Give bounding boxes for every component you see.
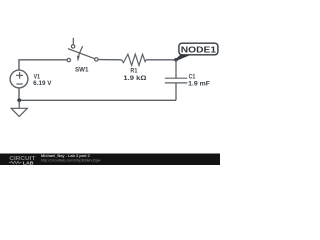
capacitor top lead	[175, 60, 177, 78]
switch terminal pin left	[67, 58, 70, 61]
svg-text:R1: R1	[130, 67, 137, 74]
footer bar	[0, 154, 220, 166]
wire resistor to node	[146, 59, 176, 61]
capacitor bottom lead	[175, 83, 177, 100]
node NODE1 flag	[174, 43, 218, 61]
CircuitLab logo zigzag and LAB	[9, 160, 34, 166]
capacitor bottom plate	[165, 82, 188, 84]
capacitor top plate	[165, 77, 188, 79]
svg-text:1.9 kΩ: 1.9 kΩ	[123, 75, 147, 82]
svg-text:LAB: LAB	[23, 160, 34, 165]
V1 plus sign	[16, 72, 23, 79]
switch common terminal top	[71, 45, 74, 48]
wire switch to resistor	[98, 59, 122, 61]
switch common stub wire	[72, 38, 74, 44]
voltage source V1	[10, 70, 28, 88]
resistor R1	[122, 54, 146, 65]
ground triangle	[11, 108, 27, 116]
ground junction dot	[17, 98, 21, 102]
svg-text:http://circuitlab.com/c/kp3bbk: http://circuitlab.com/c/kp3bbknu5pw	[41, 158, 101, 162]
svg-text:NODE1: NODE1	[181, 45, 216, 55]
wire bottom rail	[19, 99, 176, 101]
svg-text:6.19 V: 6.19 V	[33, 80, 52, 87]
svg-text:1.9 mF: 1.9 mF	[188, 80, 210, 87]
node flag box	[179, 43, 218, 55]
switch terminal pin right	[95, 58, 98, 61]
svg-text:SW1: SW1	[75, 68, 89, 74]
V1 minus sign	[16, 83, 22, 85]
ground	[11, 100, 27, 116]
wire top rail V1 to switch	[19, 60, 67, 71]
ground stub	[18, 100, 20, 108]
switch SW1	[67, 38, 98, 62]
switch lever	[68, 49, 94, 59]
V1 body circle	[10, 70, 28, 88]
node flag tail	[174, 55, 190, 61]
capacitor C1	[165, 60, 188, 101]
wire V1 to ground junction	[18, 88, 20, 100]
node junction dot	[174, 58, 178, 62]
switch actuation arrow	[79, 47, 83, 55]
